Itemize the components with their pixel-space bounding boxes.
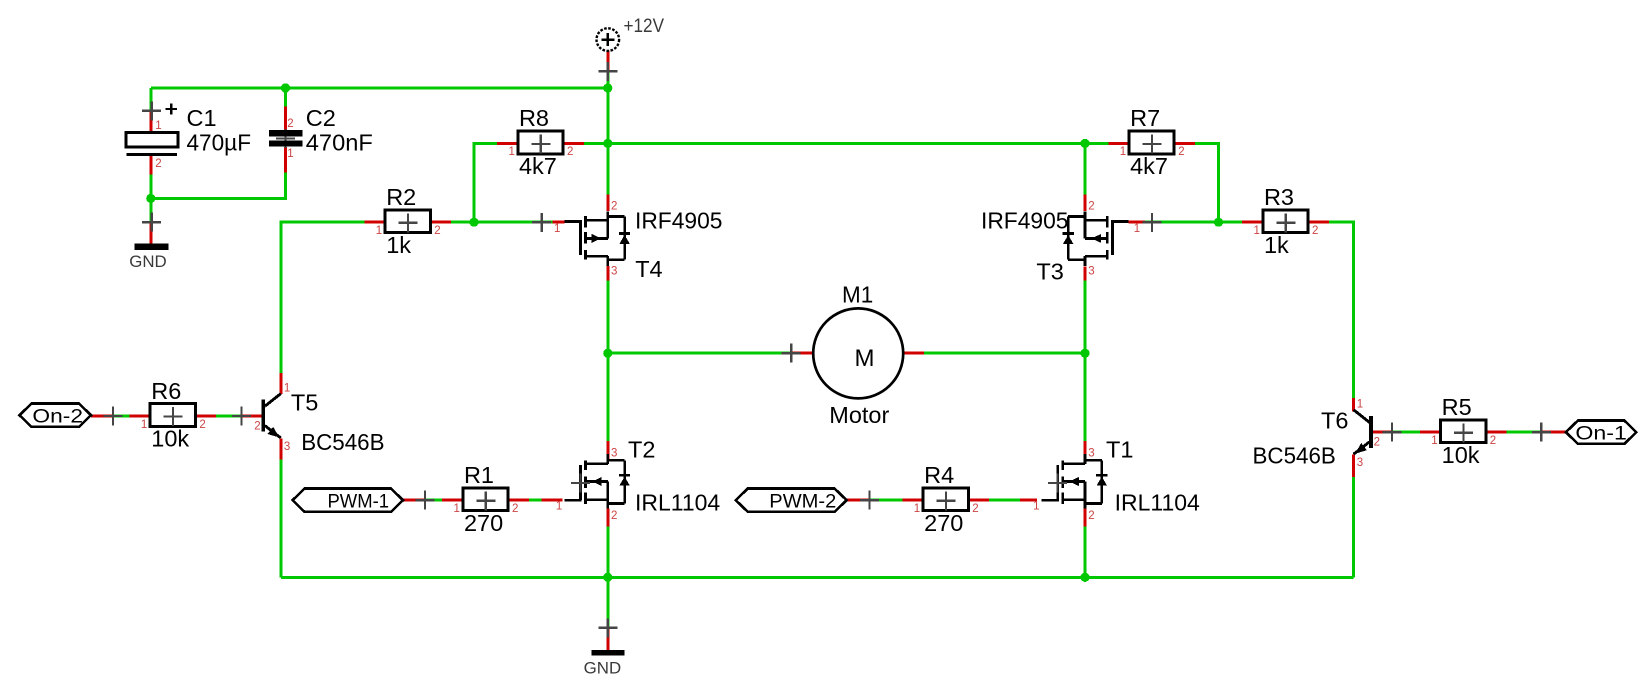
svg-text:1: 1 <box>284 382 290 394</box>
pin T5.3 <box>279 439 282 460</box>
wire R8.2 to rail <box>584 142 608 145</box>
junction R7/T3 <box>1080 139 1089 148</box>
pin T1.1 <box>1020 499 1037 502</box>
pin C2.2 <box>284 107 287 131</box>
origin T6 base <box>1382 423 1401 442</box>
motor M1 <box>813 281 903 428</box>
wire T4 drain <box>606 281 609 354</box>
svg-text:T5: T5 <box>291 390 318 416</box>
wire T3 source <box>1084 143 1087 194</box>
junction C2 top <box>281 83 290 92</box>
pin PWM-2 <box>847 499 870 502</box>
pin T6.1 <box>1352 398 1355 412</box>
svg-text:3: 3 <box>284 441 290 453</box>
pin T4.3 <box>606 266 609 280</box>
pin M1.2 <box>903 352 924 355</box>
svg-text:2: 2 <box>611 510 617 522</box>
svg-text:1: 1 <box>1120 146 1126 158</box>
junction R2/R8/T4 gate <box>469 218 478 227</box>
pin C2.1 <box>284 147 287 173</box>
wire On-2 to R6 <box>113 415 130 418</box>
svg-text:Motor: Motor <box>829 402 889 428</box>
svg-text:IRF4905: IRF4905 <box>635 208 723 234</box>
wire T6 base to R5 <box>1392 431 1420 434</box>
svg-text:R2: R2 <box>386 184 416 210</box>
origin On-1 <box>1532 423 1551 442</box>
svg-text:2: 2 <box>611 201 617 213</box>
wire R1 to T2 gate <box>529 499 542 502</box>
power +12V <box>597 15 665 51</box>
transistor T3 IRF4905 P-MOSFET <box>981 201 1140 285</box>
svg-text:3: 3 <box>1088 448 1094 460</box>
resistor R7 4k7 <box>1108 105 1195 179</box>
transistor T2 IRL1104 N-MOSFET <box>556 437 720 523</box>
svg-text:1: 1 <box>1033 501 1039 513</box>
wire T2 source <box>606 527 609 578</box>
origin PWM-2 <box>860 491 879 510</box>
transistor T4 IRF4905 P-MOSFET <box>554 201 723 283</box>
wire C1 bottom <box>149 175 152 199</box>
svg-text:GND: GND <box>129 253 167 271</box>
resistor R5 10k <box>1420 394 1507 468</box>
wire T1 drain <box>1084 353 1087 441</box>
wire +12V down <box>606 88 609 143</box>
wire T6 emitter down <box>1352 477 1355 577</box>
pin T3.2 <box>1084 195 1087 212</box>
svg-text:2: 2 <box>434 225 440 237</box>
wire R5 to On-1 <box>1507 431 1542 434</box>
svg-text:2: 2 <box>1490 435 1496 447</box>
origin GND2 <box>598 618 617 637</box>
transistor T1 IRL1104 N-MOSFET <box>1033 437 1200 523</box>
svg-text:C2: C2 <box>306 105 336 131</box>
svg-text:1: 1 <box>1134 223 1140 235</box>
svg-text:2: 2 <box>287 118 293 130</box>
origin T5 base <box>232 407 251 426</box>
ground GND1 <box>129 244 168 271</box>
svg-text:T4: T4 <box>635 256 662 282</box>
svg-text:3: 3 <box>1357 457 1363 469</box>
svg-text:1: 1 <box>376 225 382 237</box>
wire to GND1 <box>149 198 152 222</box>
resistor R6 10k <box>130 378 217 452</box>
wire gnd link C1-C2 <box>151 173 286 199</box>
svg-text:T2: T2 <box>628 437 655 463</box>
pin PWM-1 <box>403 499 425 502</box>
junction T3/T1 drain <box>1080 349 1089 358</box>
wire C2 top <box>284 88 287 107</box>
wire to motor left <box>608 352 791 355</box>
capacitor C1 470µF <box>126 103 251 170</box>
wire R8.1 branch <box>474 143 497 222</box>
wire node to T3 gate <box>1145 221 1219 224</box>
pin On-2 <box>91 415 113 418</box>
svg-text:T6: T6 <box>1321 408 1348 434</box>
pin +12V <box>606 51 609 72</box>
svg-text:T1: T1 <box>1106 437 1133 463</box>
net flag On-2 <box>20 404 92 428</box>
svg-text:2: 2 <box>1088 510 1094 522</box>
pin C1.2 <box>149 156 152 175</box>
pin C1.1 <box>149 111 152 133</box>
svg-text:M1: M1 <box>842 281 873 307</box>
svg-text:3: 3 <box>1088 266 1094 278</box>
wire T3 drain <box>1084 281 1087 354</box>
wire PWM-2 to R4 <box>870 499 903 502</box>
svg-text:M: M <box>855 345 875 372</box>
svg-text:T3: T3 <box>1036 259 1063 285</box>
wire T1 source <box>1084 527 1087 578</box>
pin T4.1 <box>553 221 565 224</box>
ground GND2 <box>584 650 625 678</box>
svg-text:C1: C1 <box>187 105 217 131</box>
svg-text:1: 1 <box>509 146 515 158</box>
svg-text:R5: R5 <box>1442 394 1472 420</box>
transistor T6 BC546B NPN <box>1253 399 1381 470</box>
origin T3 gate <box>1143 213 1162 232</box>
wire PWM-1 to R1 <box>425 499 442 502</box>
svg-text:1: 1 <box>141 419 147 431</box>
pin T6.3 <box>1352 455 1355 477</box>
wire R2.2 to node <box>451 221 474 224</box>
wire T5 emitter down <box>279 460 282 578</box>
svg-text:470µF: 470µF <box>187 130 252 156</box>
svg-text:3: 3 <box>611 448 617 460</box>
pin T5.2 <box>242 415 262 418</box>
pin T5.1 <box>279 373 282 394</box>
svg-text:2: 2 <box>972 503 978 515</box>
svg-text:4k7: 4k7 <box>519 153 557 179</box>
svg-text:R6: R6 <box>151 378 181 404</box>
svg-text:470nF: 470nF <box>306 130 373 156</box>
svg-text:1: 1 <box>914 503 920 515</box>
svg-text:PWM-2: PWM-2 <box>769 490 836 512</box>
svg-text:GND: GND <box>584 660 622 678</box>
origin PWM-1 <box>416 491 435 510</box>
pin T2.3 <box>606 441 609 459</box>
svg-text:2: 2 <box>1088 201 1094 213</box>
wire 12V rail across <box>608 142 1085 145</box>
svg-text:10k: 10k <box>1442 442 1480 468</box>
wire R6 to T5 base <box>216 415 241 418</box>
pin M1.1 <box>791 352 813 355</box>
svg-text:2: 2 <box>199 419 205 431</box>
svg-text:IRL1104: IRL1104 <box>635 489 720 515</box>
svg-text:2: 2 <box>155 158 161 170</box>
pin GND1 <box>149 222 152 244</box>
svg-text:2: 2 <box>1178 146 1184 158</box>
transistor T5 BC546B NPN <box>254 382 384 455</box>
origin T4 gate <box>532 213 551 232</box>
wire to GND2 <box>606 577 609 628</box>
pin T3.1 <box>1128 221 1144 224</box>
origin C1 <box>142 101 161 120</box>
pin T4.2 <box>606 195 609 212</box>
svg-text:R8: R8 <box>519 105 549 131</box>
wire to R7.1 <box>1085 142 1108 145</box>
svg-text:3: 3 <box>611 266 617 278</box>
wire motor right <box>924 352 1085 355</box>
net flag On-1 <box>1566 421 1636 445</box>
junction +12V <box>603 83 612 92</box>
wire C1 top <box>149 88 152 111</box>
svg-text:2: 2 <box>512 503 518 515</box>
junction T2 source gnd <box>603 573 612 582</box>
wire +12V top rail <box>151 87 608 90</box>
resistor R2 1k <box>364 184 451 258</box>
pin T1.2 <box>1084 508 1087 526</box>
svg-text:R4: R4 <box>924 462 954 488</box>
svg-text:1k: 1k <box>1264 232 1289 258</box>
pin T2.1 <box>541 499 562 502</box>
svg-text:1: 1 <box>1254 225 1260 237</box>
net flag PWM-1 <box>293 489 403 513</box>
origin +12V <box>598 62 617 81</box>
wire node to T4 gate <box>474 221 553 224</box>
wire +12V stub <box>606 71 609 88</box>
pin T3.3 <box>1084 266 1087 280</box>
svg-text:2: 2 <box>567 146 573 158</box>
svg-text:270: 270 <box>924 510 963 536</box>
svg-text:1: 1 <box>454 503 460 515</box>
svg-text:IRL1104: IRL1104 <box>1115 489 1200 515</box>
svg-text:1: 1 <box>1431 435 1437 447</box>
junction R3/R7/T3 gate <box>1214 218 1223 227</box>
origin GND1 <box>142 213 161 232</box>
svg-text:1: 1 <box>155 120 161 132</box>
svg-text:2: 2 <box>254 420 260 432</box>
pin T2.2 <box>606 508 609 526</box>
resistor R8 4k7 <box>497 105 584 179</box>
svg-text:2: 2 <box>1374 437 1380 449</box>
svg-text:BC546B: BC546B <box>1253 443 1336 469</box>
svg-text:R3: R3 <box>1264 184 1294 210</box>
junction C1 gnd <box>146 194 155 203</box>
svg-text:1: 1 <box>287 148 293 160</box>
resistor R1 270 <box>442 462 529 536</box>
svg-text:On-2: On-2 <box>32 405 83 427</box>
origin M1 <box>782 344 801 363</box>
svg-text:1: 1 <box>554 223 560 235</box>
svg-text:PWM-1: PWM-1 <box>328 490 390 512</box>
pin On-1 <box>1541 431 1566 434</box>
pin T6.2 <box>1372 431 1392 434</box>
wire R3.2 to T6 collector <box>1329 222 1354 398</box>
junction T1 source gnd <box>1080 573 1089 582</box>
svg-text:270: 270 <box>464 510 503 536</box>
svg-text:IRF4905: IRF4905 <box>981 208 1069 234</box>
resistor R3 1k <box>1242 184 1329 258</box>
resistor R4 270 <box>902 462 989 536</box>
wire R2.1 to T5 collector <box>281 222 365 373</box>
svg-text:On-1: On-1 <box>1575 422 1627 444</box>
svg-text:10k: 10k <box>151 426 189 452</box>
wire R7.2 branch <box>1195 143 1219 222</box>
junction R8/T4 <box>603 139 612 148</box>
origin On-2 <box>104 407 123 426</box>
svg-text:1k: 1k <box>386 232 411 258</box>
wire T4 source <box>606 143 609 194</box>
svg-text:R1: R1 <box>464 462 494 488</box>
capacitor C2 470nF <box>269 105 373 160</box>
wire T2 drain <box>606 353 609 441</box>
svg-text:BC546B: BC546B <box>301 429 384 455</box>
svg-text:+12V: +12V <box>624 15 665 37</box>
net flag PWM-2 <box>736 489 847 513</box>
svg-text:4k7: 4k7 <box>1130 153 1168 179</box>
pin T1.3 <box>1084 441 1087 459</box>
svg-text:1: 1 <box>1357 399 1363 411</box>
svg-text:2: 2 <box>1312 225 1318 237</box>
svg-text:R7: R7 <box>1130 105 1160 131</box>
wire ground rail <box>281 576 1354 579</box>
pin GND2 <box>606 628 609 650</box>
svg-text:1: 1 <box>556 501 562 513</box>
wire node to R3.1 <box>1219 221 1243 224</box>
wire R4 to T1 gate <box>989 499 1020 502</box>
junction T4/T2 drain <box>603 349 612 358</box>
